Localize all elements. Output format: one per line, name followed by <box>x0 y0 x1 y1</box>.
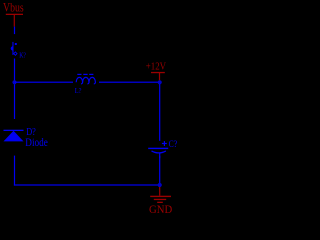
wire D? to bottom rail <box>14 156 15 186</box>
svg-text:GND: GND <box>149 202 173 216</box>
wire Vbus to K? pin 1 <box>14 27 15 34</box>
power port +12V <box>146 61 166 81</box>
capacitor C? <box>148 141 168 158</box>
svg-text:Diode: Diode <box>25 135 48 149</box>
svg-text:L?: L? <box>75 86 82 95</box>
ground GND <box>149 187 173 216</box>
wire K? to node A <box>14 59 15 83</box>
junction node GND <box>158 183 162 187</box>
diode D? <box>4 130 24 142</box>
svg-text:Vbus: Vbus <box>3 1 24 15</box>
wire C? to node GND <box>159 156 160 185</box>
junction node +12V <box>158 80 162 84</box>
svg-text:K?: K? <box>19 50 26 59</box>
wire node A to D? <box>14 84 15 119</box>
junction node A <box>12 80 16 84</box>
inductor L? <box>76 77 95 84</box>
wire +12V to C? <box>159 84 160 141</box>
wire bottom rail <box>14 184 160 185</box>
svg-text:C?: C? <box>169 139 178 149</box>
relay coil K? <box>11 42 17 55</box>
power port Vbus <box>3 1 24 27</box>
wire node A to L? <box>15 82 74 83</box>
wire L? to node +12V <box>99 82 160 83</box>
svg-text:+12V: +12V <box>146 61 166 73</box>
